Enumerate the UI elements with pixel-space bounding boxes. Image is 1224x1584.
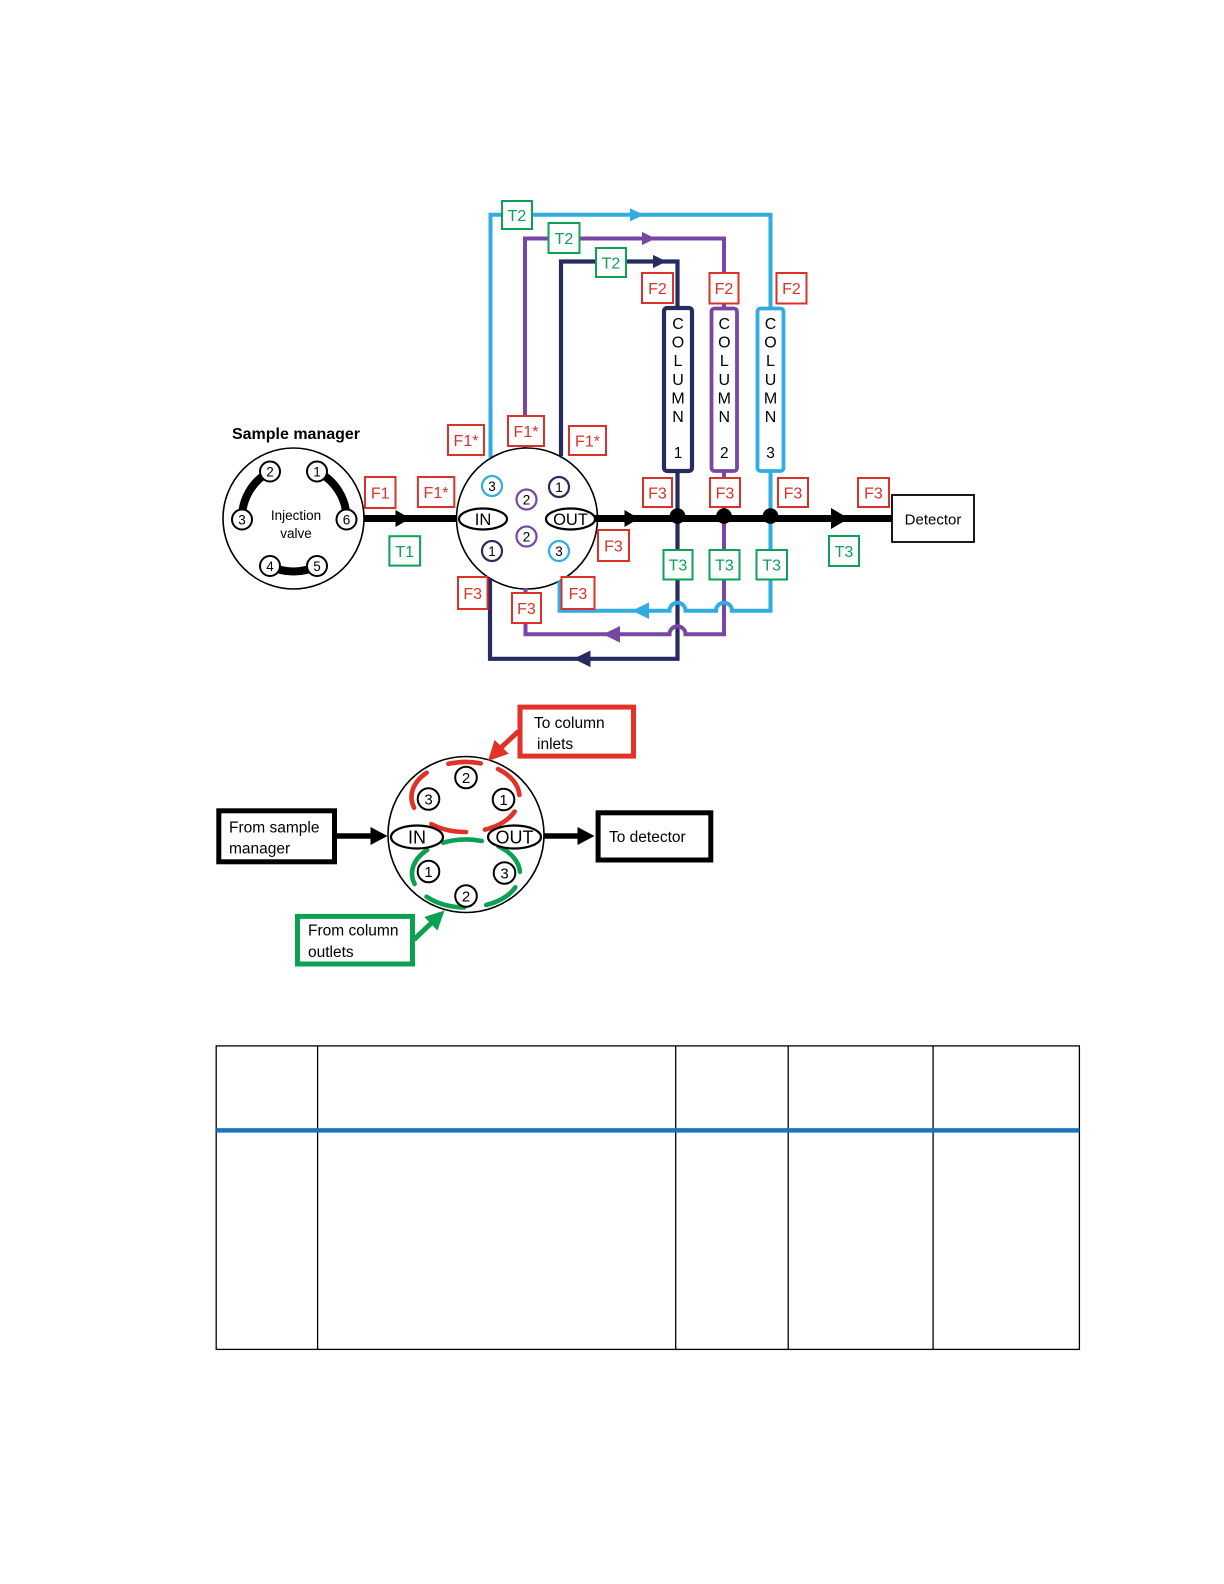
table column divider 2 — [675, 1046, 677, 1350]
svg-text:N: N — [765, 409, 777, 426]
svg-text:F1*: F1* — [575, 434, 600, 451]
svg-text:From column: From column — [308, 923, 398, 940]
wire: main flow sample manager to IN — [364, 515, 461, 522]
svg-text:2: 2 — [462, 770, 470, 787]
svg-text:2: 2 — [523, 530, 531, 545]
label box F2 (column2) — [710, 273, 739, 304]
injection valve port 6 — [337, 510, 357, 530]
svg-text:F3: F3 — [648, 486, 667, 503]
table column divider 3 — [787, 1046, 789, 1350]
svg-text:F3: F3 — [784, 486, 803, 503]
column C1 — [664, 308, 692, 471]
selector valve IN port — [459, 509, 507, 530]
svg-text:1: 1 — [313, 465, 321, 480]
label box T3 (before detector) — [829, 536, 859, 566]
label box F2 (column3) — [777, 273, 807, 304]
svg-text:1: 1 — [499, 792, 507, 809]
svg-text:2: 2 — [266, 465, 274, 480]
arrowhead navy return (left) — [574, 651, 591, 668]
svg-text:outlets: outlets — [308, 944, 354, 961]
red dashed arc (to column inlets) — [411, 762, 519, 832]
svg-text:F3: F3 — [517, 601, 536, 618]
label box T3 (below line, column3) — [757, 550, 788, 580]
label box F3 (above line, column1) — [643, 478, 672, 507]
label box F3 (below OUT) — [598, 530, 629, 561]
selector valve circle — [457, 448, 598, 589]
svg-text:C: C — [719, 316, 731, 333]
injection valve circle — [223, 448, 364, 589]
junction dot column3 on main line — [763, 508, 779, 524]
lower valve port 1 top-right — [493, 789, 515, 811]
svg-text:M: M — [718, 390, 731, 407]
arrowhead navy top — [653, 255, 667, 268]
svg-text:2: 2 — [523, 493, 531, 508]
svg-text:1: 1 — [488, 544, 496, 559]
svg-text:C: C — [765, 316, 777, 333]
svg-text:F1*: F1* — [454, 433, 479, 450]
svg-text:F2: F2 — [648, 281, 667, 298]
to column inlets callout box — [520, 707, 634, 756]
lower valve circle — [388, 757, 544, 913]
svg-text:Detector: Detector — [905, 512, 962, 529]
table column divider 1 — [317, 1046, 319, 1350]
svg-text:U: U — [719, 372, 731, 389]
svg-text:O: O — [672, 335, 684, 352]
column C3 — [758, 309, 784, 472]
wire: arrow valve to detector box — [544, 827, 595, 845]
arrowhead purple top — [642, 232, 656, 245]
from sample manager box — [219, 811, 335, 862]
arrowhead purple return (left) — [603, 626, 620, 643]
svg-text:F3: F3 — [463, 586, 482, 603]
svg-text:3: 3 — [488, 479, 496, 494]
svg-text:3: 3 — [766, 445, 775, 462]
svg-text:To detector: To detector — [609, 829, 686, 846]
rotor arc port4-port5 — [270, 566, 317, 572]
label: Injection valve — [271, 508, 321, 541]
injection valve port 3 — [232, 510, 252, 530]
injection valve port 1 — [307, 462, 327, 482]
svg-text:F2: F2 — [715, 281, 734, 298]
svg-text:3: 3 — [424, 792, 432, 809]
svg-text:OUT: OUT — [553, 511, 588, 529]
svg-text:Injection: Injection — [271, 508, 321, 523]
svg-text:T2: T2 — [508, 208, 527, 225]
wire: cyan path valve to column 3 (top) — [491, 215, 771, 458]
svg-text:F1*: F1* — [424, 485, 449, 502]
svg-text:F1: F1 — [371, 486, 390, 503]
selector valve port 3 top (cyan) — [482, 476, 502, 496]
svg-text:L: L — [674, 353, 683, 370]
label: Sample manager — [232, 426, 360, 443]
label box F1* (left of cyan riser) — [448, 425, 484, 455]
svg-text:L: L — [720, 353, 729, 370]
svg-text:C: C — [672, 316, 684, 333]
label box T3 (below line, column2) — [710, 550, 740, 580]
label box T2 (cyan line) — [502, 201, 532, 229]
lower valve port 1 bottom-left — [418, 861, 440, 883]
injection valve port 2 — [260, 462, 280, 482]
wire: main flow OUT to detector — [594, 515, 892, 522]
green callout arrow — [414, 911, 445, 940]
svg-text:F3: F3 — [604, 539, 623, 556]
svg-text:T3: T3 — [715, 558, 734, 575]
svg-text:U: U — [672, 372, 684, 389]
svg-text:T3: T3 — [669, 558, 688, 575]
svg-text:T2: T2 — [602, 256, 621, 273]
svg-text:M: M — [764, 390, 777, 407]
label box T1 — [389, 536, 420, 565]
svg-text:T3: T3 — [835, 544, 854, 561]
table header blue rule — [216, 1128, 1079, 1133]
svg-text:3: 3 — [555, 544, 563, 559]
junction dot column1 on main line — [670, 508, 686, 524]
wire: purple path valve to column 2 (top) — [525, 239, 724, 448]
svg-text:N: N — [672, 409, 684, 426]
red callout arrow — [488, 731, 519, 761]
svg-text:F3: F3 — [864, 486, 883, 503]
selector valve OUT port — [546, 509, 595, 530]
svg-text:N: N — [719, 409, 731, 426]
svg-text:1: 1 — [555, 480, 563, 495]
svg-text:1: 1 — [424, 864, 432, 881]
svg-text:O: O — [718, 335, 730, 352]
svg-text:T2: T2 — [555, 231, 574, 248]
selector valve port 1 bottom (navy) — [482, 541, 502, 561]
arrowhead cyan return (left) — [632, 602, 649, 619]
selector valve port 2 bottom (purple) — [517, 527, 537, 547]
label box F1* (right of navy riser) — [569, 426, 606, 455]
svg-text:3: 3 — [238, 513, 246, 528]
label box F3 (valve bottom right) — [562, 577, 595, 609]
svg-text:OUT: OUT — [496, 828, 534, 848]
lower valve IN port — [391, 826, 443, 849]
label box F3 (above line, column2) — [710, 478, 740, 507]
label box F1* (on purple riser) — [508, 416, 544, 446]
injection valve port 5 — [307, 556, 327, 576]
label box F3 (valve bottom middle) — [512, 593, 541, 623]
table outer border — [216, 1046, 1079, 1350]
lower valve OUT port — [488, 826, 541, 849]
svg-text:inlets: inlets — [537, 736, 573, 753]
arrowhead on main flow before selector valve — [396, 510, 411, 527]
svg-text:F2: F2 — [782, 281, 801, 298]
junction dot column2 on main line — [716, 508, 732, 524]
rotor arc port2-port3 — [242, 472, 270, 520]
svg-text:Sample manager: Sample manager — [232, 426, 360, 443]
lower valve port 2 bottom — [455, 885, 477, 907]
svg-text:O: O — [764, 335, 776, 352]
svg-text:To column: To column — [534, 715, 605, 732]
svg-text:valve: valve — [280, 526, 312, 541]
column C2 — [712, 309, 738, 472]
svg-text:3: 3 — [500, 866, 508, 883]
wire: navy path column1 bottom to valve (return) — [490, 471, 678, 659]
wire: cyan path column3 bottom to valve (return) with hops — [560, 471, 771, 611]
table column divider 4 — [932, 1046, 934, 1350]
arrowhead cyan top — [630, 208, 644, 221]
svg-text:4: 4 — [266, 559, 274, 574]
selector valve port 1 top (navy) — [549, 477, 569, 497]
label box F2 (column1) — [642, 273, 673, 303]
svg-text:F3: F3 — [716, 486, 735, 503]
label box F3 (valve bottom left) — [458, 577, 488, 609]
label box T2 (navy line) — [596, 248, 626, 277]
lower valve port 3 top-left — [418, 788, 440, 810]
selector valve port 3 bottom (cyan) — [549, 541, 569, 561]
svg-text:T1: T1 — [395, 544, 414, 561]
lower valve port 3 bottom-right — [494, 862, 516, 884]
arrowhead on main flow before detector — [831, 508, 849, 529]
lower valve port 2 top — [455, 767, 477, 789]
svg-text:L: L — [766, 353, 775, 370]
label box T3 (below line, column1) — [664, 550, 693, 580]
svg-text:1: 1 — [674, 445, 683, 462]
svg-text:IN: IN — [475, 511, 492, 529]
svg-text:F3: F3 — [569, 586, 588, 603]
label box F3 (above line, column3) — [778, 478, 808, 507]
wire: arrow from sample manager box to valve — [337, 827, 388, 845]
svg-text:6: 6 — [343, 513, 351, 528]
injection valve port 4 — [260, 556, 280, 576]
green dashed arc (from column outlets) — [412, 840, 520, 908]
svg-text:2: 2 — [462, 889, 470, 906]
label box F3 (above line, before detector) — [858, 478, 889, 507]
svg-text:From sample: From sample — [229, 820, 319, 837]
wire: navy path valve to column 1 (top) — [561, 262, 678, 457]
svg-text:IN: IN — [408, 828, 426, 848]
svg-text:2: 2 — [720, 445, 729, 462]
svg-text:U: U — [765, 372, 777, 389]
wire: purple path column2 bottom to valve (return) with hop over navy — [526, 471, 725, 634]
svg-text:M: M — [671, 390, 684, 407]
detector box — [892, 495, 974, 542]
label box F1 — [365, 477, 396, 508]
rotor arc port1-port6 — [317, 472, 347, 520]
svg-text:F1*: F1* — [514, 424, 539, 441]
from column outlets callout box — [298, 916, 413, 964]
svg-text:T3: T3 — [762, 558, 781, 575]
arrowhead on main flow after OUT — [625, 510, 640, 527]
selector valve port 2 top (purple) — [517, 490, 537, 510]
svg-text:manager: manager — [229, 841, 290, 858]
label box F1* (between F1 and valve) — [418, 477, 454, 507]
label box T2 (purple line) — [549, 223, 580, 253]
svg-text:5: 5 — [313, 559, 321, 574]
to detector box — [598, 813, 711, 860]
